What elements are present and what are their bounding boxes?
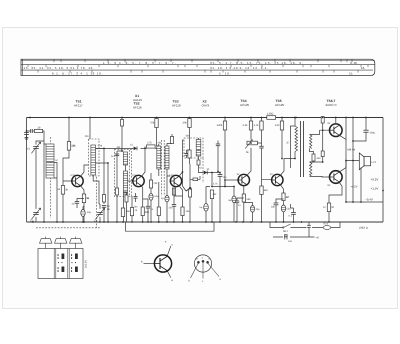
wire sec1 top xyxy=(310,130,331,134)
wire C18 link xyxy=(233,187,235,223)
svg-text:AF116: AF116 xyxy=(172,103,181,107)
electrolytic C18 xyxy=(232,196,236,203)
resistor R22 xyxy=(312,154,315,161)
bottom ground rail xyxy=(27,221,384,223)
wire R20 down xyxy=(283,201,285,205)
wire R9 link xyxy=(150,173,152,193)
wire cap out stub xyxy=(365,118,367,131)
svg-text:SK1: SK1 xyxy=(283,230,288,233)
resistor R14 xyxy=(217,121,227,130)
resistor R6 xyxy=(121,208,124,217)
wire trimmer down xyxy=(35,149,37,206)
wire bias chain lower xyxy=(310,157,323,163)
capacitor C11 xyxy=(172,205,176,207)
svg-text:2,2k: 2,2k xyxy=(243,124,249,127)
ferrite rod xyxy=(49,137,51,218)
wire TS3 collector xyxy=(179,140,184,176)
svg-text:33n: 33n xyxy=(271,206,276,209)
junction detector xyxy=(103,148,226,188)
svg-text:AF116: AF116 xyxy=(133,105,142,109)
junction TS5 xyxy=(182,158,296,173)
wire cap out down xyxy=(353,132,366,141)
svg-text:10n: 10n xyxy=(223,176,228,179)
wire R21 down xyxy=(281,118,283,159)
svg-text:3V: 3V xyxy=(237,173,240,176)
svg-text:1,78: 1,78 xyxy=(98,145,103,148)
IF1 primary coil xyxy=(123,152,127,165)
wire R23 down xyxy=(328,212,330,222)
svg-text:2xOC74: 2xOC74 xyxy=(326,103,337,107)
wire TS6 emitter xyxy=(339,135,346,161)
capacitor C5 xyxy=(75,202,79,204)
wire C19 down xyxy=(283,212,285,222)
wire sec1 bottom xyxy=(310,148,314,154)
dial scale inner line 2 xyxy=(21,69,373,71)
battery block outline xyxy=(38,249,83,279)
wire output node xyxy=(346,161,359,203)
svg-text:15.: 15. xyxy=(349,72,353,76)
dial scale top inner line xyxy=(21,60,375,62)
pot arrow xyxy=(245,140,252,149)
transistor TS6 xyxy=(330,124,343,137)
wire R12 down xyxy=(189,118,191,141)
IF2 secondary coil xyxy=(165,146,169,169)
wire C2 link xyxy=(27,130,35,132)
wire TS3 emitter xyxy=(179,186,183,207)
detail transistor symbol xyxy=(144,246,172,278)
resistor R10b xyxy=(157,207,160,216)
wire C20 link xyxy=(276,199,284,222)
transistor TS5 xyxy=(272,174,283,185)
wire L2 tap xyxy=(54,177,57,179)
wire R7 link xyxy=(131,196,133,222)
electrolytic C6 xyxy=(81,210,85,217)
svg-text:C4: C4 xyxy=(94,220,98,223)
resistor R2 xyxy=(61,186,68,195)
transistor TS3 xyxy=(170,175,181,186)
dial scale inner line 1 xyxy=(21,64,375,66)
electrolytic C16 xyxy=(250,206,254,213)
battery cell dividers xyxy=(54,249,69,279)
detail pinout circle xyxy=(191,255,220,279)
wire speaker link xyxy=(358,160,360,162)
capacitor C15 xyxy=(259,146,263,148)
wire pot right xyxy=(257,143,261,146)
svg-text:35. 5. 4.7. 8.5. 15. 75. 1: 35. 5. 4.7. 8.5. 15. 75. 15. 45 16. 16. … xyxy=(210,61,304,65)
svg-text:10n: 10n xyxy=(85,135,90,138)
wire C11 link xyxy=(173,206,175,222)
wire gang1 down xyxy=(35,206,37,222)
wire primary bottom xyxy=(294,152,296,159)
resistor R6c xyxy=(125,195,128,202)
svg-text:1k5: 1k5 xyxy=(186,210,191,213)
resistor R11 xyxy=(181,207,184,216)
svg-text:8k2: 8k2 xyxy=(264,189,269,192)
wire L1 left xyxy=(44,143,46,145)
resistor R7 xyxy=(130,208,133,216)
gang link dashed xyxy=(36,227,100,229)
wire TS5 emitter xyxy=(280,185,283,193)
tuning gang C4 xyxy=(94,208,105,222)
svg-text:6.1. U. 17. 3 4. 1: 6.1. U. 17. 3 4. 1 16 16. xyxy=(52,72,103,76)
svg-text:34. 16. 4 6.10.9. 12. 13.: 34. 16. 4 6.10.9. 12. 13. 3.1. xyxy=(210,66,269,70)
svg-text:R24: R24 xyxy=(324,222,329,225)
svg-text:50µ: 50µ xyxy=(287,208,292,211)
svg-text:1n5: 1n5 xyxy=(288,240,293,243)
oscillator coil box xyxy=(89,139,100,176)
wire R13 down xyxy=(211,199,213,222)
wire TS4 stub xyxy=(250,118,252,140)
dial tick marks xyxy=(28,59,368,72)
capacitor C13b xyxy=(216,144,220,146)
wire trimmer link xyxy=(36,141,44,145)
right frame wire xyxy=(382,118,384,223)
wire R2 down xyxy=(62,194,64,222)
wire R1 to coil xyxy=(43,131,44,144)
wire TS4 base xyxy=(225,179,238,181)
svg-text:+K: +K xyxy=(316,237,320,240)
electrolytic C10 xyxy=(149,194,153,201)
junction TS4 xyxy=(233,142,252,187)
wire R6c link xyxy=(123,192,126,222)
wire R17 down xyxy=(243,202,245,222)
wire C15 down xyxy=(261,148,263,158)
svg-text:100µ: 100µ xyxy=(370,132,376,135)
capacitor C24 xyxy=(284,235,288,237)
IF1 core dashed xyxy=(128,150,130,196)
svg-text:+: + xyxy=(165,240,167,244)
battery cap 1 xyxy=(40,237,52,244)
wire IF2 sec top xyxy=(167,134,172,146)
IF2 shield dashed left xyxy=(161,140,163,196)
capacitor C13 xyxy=(218,175,223,177)
transistor TS7 xyxy=(330,171,343,184)
trimmer C2 xyxy=(31,142,40,153)
svg-text:1,7k: 1,7k xyxy=(254,124,260,127)
svg-text:M: M xyxy=(56,159,58,162)
diode X2 xyxy=(204,171,207,175)
capacitor C1 xyxy=(24,133,29,135)
svg-text:4n7: 4n7 xyxy=(72,203,77,206)
svg-text:680: 680 xyxy=(145,211,150,214)
capacitor C8 xyxy=(115,154,119,156)
wire loop under rail xyxy=(126,222,215,231)
wire L1 down xyxy=(43,144,45,222)
wire C5 link xyxy=(77,199,84,209)
svg-text:5k6: 5k6 xyxy=(126,210,131,213)
wire TS2 base xyxy=(128,180,133,182)
svg-text:10n: 10n xyxy=(134,206,139,209)
capacitor C17 xyxy=(235,201,239,203)
capacitor C21 xyxy=(291,213,296,215)
svg-text:+9,2V: +9,2V xyxy=(371,178,379,182)
resistor R12d xyxy=(197,160,200,165)
svg-text:130Ω: 130Ω xyxy=(267,112,273,115)
svg-text:9V: 9V xyxy=(328,184,331,187)
wire R12e link xyxy=(190,176,200,179)
wire TS1 collector xyxy=(81,165,89,176)
bottom rail junctions xyxy=(32,221,330,223)
resistor R5b xyxy=(121,120,124,127)
wire TS4 collector xyxy=(247,148,251,176)
speaker xyxy=(359,153,370,170)
wire TS1 emitter xyxy=(81,186,85,194)
svg-text:4V: 4V xyxy=(270,173,273,176)
wire R8 down xyxy=(142,216,144,222)
resistor R12b xyxy=(188,189,191,197)
resistor R15a xyxy=(243,121,253,130)
capacitor C2 series xyxy=(31,129,33,133)
wire IF1 stub xyxy=(117,118,122,223)
svg-text:30k: 30k xyxy=(183,122,188,125)
svg-text:+0,5V: +0,5V xyxy=(351,186,358,189)
resistor R24b xyxy=(321,151,324,157)
svg-text:AC125: AC125 xyxy=(275,103,285,107)
battery stems xyxy=(46,243,76,248)
svg-text:AF117: AF117 xyxy=(74,103,83,107)
wire C6 down xyxy=(83,207,84,223)
resistor R16 in rail xyxy=(267,112,276,119)
wire gang2 top link xyxy=(99,203,100,205)
wire R11b link xyxy=(174,188,183,205)
resistor R9 xyxy=(149,180,152,188)
resistor R23 xyxy=(327,203,334,212)
top supply rail xyxy=(27,117,384,119)
wire C1 link xyxy=(26,134,28,137)
wire speaker return xyxy=(360,168,362,203)
wire IF3 primary down xyxy=(189,140,192,222)
wire sec2 bottom xyxy=(310,175,331,178)
IF3 coil lower xyxy=(196,151,201,157)
svg-text:M4 04: M4 04 xyxy=(348,149,356,152)
transistor TS4 xyxy=(238,174,249,185)
capacitor C20 xyxy=(274,203,279,205)
svg-text:AC125: AC125 xyxy=(240,103,250,107)
resistor R12e xyxy=(193,178,198,181)
resistor R13 xyxy=(210,190,213,199)
wire bias chain xyxy=(322,123,324,151)
svg-text:0,2V: 0,2V xyxy=(71,174,76,177)
wire R14 down xyxy=(224,118,226,187)
wire TS5 collector xyxy=(280,159,295,176)
wire IF3 sec to diode xyxy=(199,138,204,173)
wire IF2 primary xyxy=(157,144,159,222)
electrolytic C14 xyxy=(204,204,209,212)
wire C16 link xyxy=(244,203,253,223)
wire primary stub xyxy=(294,118,296,127)
resistor R12c xyxy=(188,150,191,158)
dial scale outline xyxy=(21,59,375,75)
wire R4 down xyxy=(83,203,85,222)
osc gang link dashed xyxy=(96,177,98,228)
wire C23 drop xyxy=(308,222,310,237)
junction antenna xyxy=(26,130,28,132)
wire TS6 collector xyxy=(335,118,337,125)
svg-text:4,7k: 4,7k xyxy=(213,183,218,186)
left frame wire xyxy=(26,118,28,223)
resistor R21 xyxy=(275,121,284,130)
svg-text:OA79: OA79 xyxy=(202,103,210,107)
wire C17 link xyxy=(237,198,244,222)
svg-text:+1,5V: +1,5V xyxy=(371,187,379,191)
battery cell marks right xyxy=(71,254,78,273)
driver transformer primary xyxy=(295,126,298,152)
wire TS7 collector xyxy=(339,161,346,173)
wire C12b xyxy=(187,150,190,158)
svg-text:120: 120 xyxy=(275,124,280,127)
wire R18 link xyxy=(261,180,263,222)
junction output xyxy=(335,117,384,203)
wire TS5 base xyxy=(262,158,272,180)
svg-text:2,7k: 2,7k xyxy=(147,142,152,145)
fuse lamp xyxy=(323,226,331,230)
svg-text:3x1,5V: 3x1,5V xyxy=(85,260,88,268)
svg-text:1,2V: 1,2V xyxy=(132,174,137,177)
wire C10 down xyxy=(150,200,152,222)
wire IF2 secondary xyxy=(167,169,170,176)
svg-text:10µ: 10µ xyxy=(256,208,261,211)
wire R19 down xyxy=(261,118,263,144)
transistor TS1 xyxy=(72,175,83,186)
resistor R24a xyxy=(321,117,324,124)
IF1 secondary coil xyxy=(123,171,127,194)
wire C9b xyxy=(135,193,137,202)
wire AGC cap chain xyxy=(217,141,219,173)
resistor R11b xyxy=(172,188,175,195)
resistor R1 xyxy=(34,126,42,132)
ground tag xyxy=(186,188,191,191)
svg-text:P57 3: P57 3 xyxy=(360,226,368,230)
wire switch line xyxy=(270,222,340,228)
wire C7 down xyxy=(103,207,105,222)
antenna coil L2 xyxy=(46,163,54,179)
transistor TS2 xyxy=(133,175,144,186)
wire TS4 emitter xyxy=(243,186,245,194)
resistor R10c xyxy=(170,137,173,144)
svg-text:9. 16.: 9. 16. xyxy=(350,61,358,65)
wire IF1 sec down xyxy=(122,194,124,222)
svg-text:50µ: 50µ xyxy=(155,195,160,198)
volume pot R15 xyxy=(247,141,257,145)
wire AGC line xyxy=(212,180,234,187)
svg-text:−9,4V: −9,4V xyxy=(365,197,373,201)
dial scale left bracket xyxy=(22,59,24,75)
svg-text:1,2V: 1,2V xyxy=(169,174,174,177)
driver secondary winding 1 xyxy=(310,135,312,149)
capacitor C12b xyxy=(185,154,189,156)
battery cap 3 xyxy=(70,237,82,244)
wire R2 top xyxy=(63,181,71,186)
resistor R17 xyxy=(242,194,245,202)
wire osc stub xyxy=(89,118,91,140)
electrolytic C19 xyxy=(281,205,285,212)
svg-text:10n: 10n xyxy=(169,207,174,210)
driver secondary winding 2 xyxy=(310,162,312,176)
resistor R20 xyxy=(282,193,289,201)
IF2 shield dashed right xyxy=(163,140,165,196)
electrolytic C12 xyxy=(165,196,169,202)
svg-text:15. 35. 41. 34. 5 1: 15. 35. 41. 34. 5 16. 3.51 1 76. 16. xyxy=(24,66,95,70)
resistor R18 xyxy=(260,186,263,194)
wire IF1 primary top xyxy=(122,151,126,171)
wire osc tap lower xyxy=(96,163,109,222)
IF transformer 3 box xyxy=(184,138,203,158)
capacitor C23 xyxy=(307,225,311,227)
wire out vertical xyxy=(352,118,354,203)
svg-text:40µ: 40µ xyxy=(87,211,92,214)
ground mark antenna xyxy=(25,138,29,140)
capacitor C7 xyxy=(102,205,110,208)
svg-text:70k: 70k xyxy=(150,122,155,125)
capacitor C22 xyxy=(363,130,368,132)
svg-text:L73: L73 xyxy=(372,161,377,164)
svg-text:2k2: 2k2 xyxy=(213,193,218,196)
svg-text:L 3. 3 4. 6. 5. 7. 8.: L 3. 3 4. 6. 5. 7. 8. 5. 7. 9. 7. xyxy=(103,61,177,65)
wire out stub rail xyxy=(345,118,347,140)
resistor R10 xyxy=(150,119,158,128)
resistor R19 xyxy=(254,121,264,130)
svg-text:330: 330 xyxy=(317,157,322,160)
wire osc tap upper xyxy=(96,148,105,204)
svg-text:130k: 130k xyxy=(217,124,223,127)
signal wire xyxy=(96,147,157,149)
wire R10 down xyxy=(156,118,158,147)
tuning gang C3 xyxy=(30,208,41,222)
wire R22 down xyxy=(310,161,314,162)
svg-text:5. 16.: 5. 16. xyxy=(219,72,231,76)
IF3 coil upper xyxy=(196,140,201,150)
wire R11 down xyxy=(182,216,184,222)
resistor R8 xyxy=(141,207,149,216)
wire TS7 emitter xyxy=(329,182,342,203)
wire det node down xyxy=(210,173,212,187)
battery cap 2 xyxy=(55,237,67,244)
wire ground tag link xyxy=(183,172,187,191)
wire primary side stub xyxy=(291,126,296,168)
IF2 primary coil xyxy=(157,146,161,169)
resistor R12 xyxy=(183,119,192,128)
junction driver xyxy=(294,117,323,163)
wire lower branch xyxy=(273,236,315,238)
resistor R3 xyxy=(67,142,76,151)
wire gang2 xyxy=(99,204,101,222)
wire L2 right xyxy=(54,163,57,223)
oscillator coil xyxy=(91,145,96,175)
wire C9 link xyxy=(143,199,148,222)
capacitor C9b xyxy=(134,197,138,199)
capacitor C24 rotate xyxy=(285,235,287,240)
resistor R4b xyxy=(102,195,105,203)
capacitor C9 xyxy=(146,206,150,208)
diode X1 xyxy=(134,147,137,151)
svg-text:9V: 9V xyxy=(328,122,331,125)
resistor R6b xyxy=(115,188,118,195)
IF3 can dashed edge xyxy=(202,158,204,183)
wire osc bottom xyxy=(93,175,99,204)
wire R5 drop xyxy=(150,147,152,149)
resistor R5 xyxy=(147,145,156,148)
wire TS2 emitter xyxy=(141,186,142,208)
wire C13 down xyxy=(219,173,221,223)
wire neg line xyxy=(346,201,383,203)
svg-text:560: 560 xyxy=(247,198,252,201)
battery cell marks middle xyxy=(58,254,65,273)
top rail junctions xyxy=(29,117,354,119)
wire TS2 collector xyxy=(142,147,146,177)
wire C14 xyxy=(206,187,210,223)
svg-text:16.: 16. xyxy=(361,66,365,70)
resistor R4 xyxy=(82,194,89,203)
